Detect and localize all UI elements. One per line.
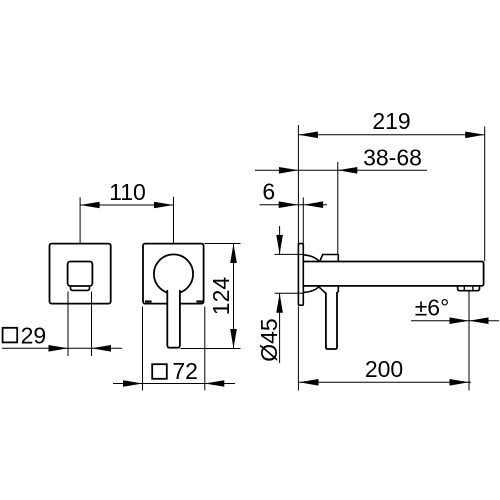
handle knob circle [154,254,193,293]
handle joint slant (side) [319,287,326,294]
dim sq72 label square symbol [152,364,167,379]
dim 200 left extension [297,307,299,391]
dim 6 right extension [302,198,304,244]
dim dia45 extension bottom [275,292,303,294]
dim sq29 arrow right [92,345,112,352]
dim 110 extension line right [173,197,175,244]
handle lever (side) [326,293,337,349]
wall extension line upper [297,125,299,243]
spout outline (front) [68,262,93,287]
dim 38-68 arrow right [338,167,358,174]
dim sq72 arrow right [205,380,225,387]
svg-text:72: 72 [172,358,198,384]
svg-text:200: 200 [365,356,403,382]
mounting slot mark right [196,300,203,302]
svg-text:219: 219 [372,108,410,134]
dim sq29 line [2,347,122,349]
dim 38-68 line [255,169,427,171]
svg-text:29: 29 [21,323,47,349]
dim 200 arrow right [450,379,470,386]
dim sq29 arrow left [49,345,69,352]
spout (side) [304,262,484,286]
dim 6 arrow right [304,201,324,208]
dim 110 arrow right [154,202,174,209]
svg-text:38-68: 38-68 [363,144,422,170]
aerator (side) [458,286,480,291]
dim 110 extension line left [79,197,81,243]
svg-text:124: 124 [208,277,234,316]
dim 124 extension line top [205,243,241,245]
dim 110 arrow left [80,202,100,209]
mounting slot mark left [145,300,152,302]
dim dia45 extension top [275,253,304,255]
dim sq72 arrow left [123,380,143,387]
valve body top arc [304,255,320,261]
dim dia45 line bottom [279,293,281,363]
dim 200 right extension (aerator centre) [468,292,470,391]
valve body bottom arc [304,287,319,292]
dim 124 arrow down [230,329,237,349]
svg-text:6: 6 [262,179,275,205]
dim sq72 extension line right [204,307,206,391]
dim sq29 label square symbol [3,328,18,343]
aerator tick left [463,286,465,290]
left wall plate square (spout escutcheon, front) [50,244,111,304]
dim 219 arrow left [298,132,318,139]
dim sq72 line [113,383,235,385]
dim 200 arrow left [299,379,319,386]
dim dia45 arrow up [276,293,283,313]
svg-text:Ø45: Ø45 [256,318,282,361]
dim 6 arrow left [279,201,299,208]
dim 219 line [298,134,484,136]
dim 219 arrow right [465,132,485,139]
dim 124 arrow up [230,244,237,264]
wall plate (side) [298,244,303,306]
dim 6 line [260,204,328,206]
handle lever (front) [167,290,180,348]
dim plusminus6 arrow left [450,317,470,324]
cartridge cover block (top) [320,255,339,262]
right wall plate square (handle escutcheon, front) [143,244,204,304]
svg-text:110: 110 [109,179,146,205]
dim dia45 line top [279,226,281,254]
spout aerator lip (front) [71,286,90,290]
dim 38-68 right extension [337,162,339,254]
handle joint right edge (side) [337,286,338,293]
dim 124 line [233,244,235,349]
aerator tick right [472,286,474,290]
dim plusminus6 line [411,320,499,322]
spout tip extension [484,127,486,262]
dim plusminus6 arrow right [469,317,489,324]
svg-text:±6°: ±6° [415,295,450,321]
dim dia45 arrow down [276,235,283,255]
dim 200 line [299,381,471,383]
dim 124 extension line bottom [181,348,241,350]
dim 110 line [80,204,173,206]
dim sq29 extension line left [67,292,69,357]
dim 38-68 arrow left [279,167,299,174]
dim sq72 extension line left [142,307,144,391]
dim sq29 extension line right [91,292,93,357]
